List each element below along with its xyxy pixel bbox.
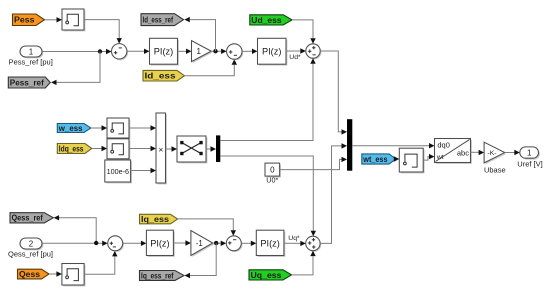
- svg-text:1: 1: [527, 149, 532, 158]
- svg-text:Ud*: Ud*: [289, 54, 301, 61]
- svg-text:-K-: -K-: [487, 150, 496, 157]
- sum S1: [112, 44, 129, 61]
- wire RT1 to sum S1 top: [84, 20, 122, 44]
- crossover block: [177, 136, 207, 163]
- wire S3 to mux input 1: [320, 51, 347, 135]
- svg-text:Qess: Qess: [19, 270, 41, 279]
- svg-text:Qess_ref [pu]: Qess_ref [pu]: [8, 250, 53, 259]
- svg-text:Id_ess_ref: Id_ess_ref: [143, 16, 174, 25]
- wire demux out2 to sum S5 top: [220, 156, 316, 236]
- svg-text:dq0: dq0: [437, 141, 450, 150]
- PI controller PI3: [146, 230, 174, 257]
- wire wt_ess to RT4: [394, 156, 400, 161]
- wire Pess to RT1: [45, 17, 63, 22]
- svg-text:Pess_ref [pu]: Pess_ref [pu]: [9, 58, 53, 67]
- input port 1 Pess_ref [pu]: [9, 46, 53, 67]
- svg-text:Uq*: Uq*: [288, 235, 300, 242]
- wire PI4 to sum S6: [284, 241, 306, 246]
- wire Qess to RT5: [49, 271, 62, 276]
- svg-text:U0*: U0*: [266, 176, 278, 185]
- demux bar: [216, 135, 220, 162]
- wire 100e-6 to product: [131, 168, 156, 173]
- constant 100e-6: [105, 160, 132, 183]
- wire branch to Pess_ref tag: [51, 52, 100, 86]
- rate transition RT5: [62, 264, 86, 287]
- svg-text:Iq_ess: Iq_ess: [141, 215, 170, 224]
- wire PI2 to sum S3: [286, 48, 306, 53]
- svg-text:wt_ess: wt_ess: [362, 155, 388, 164]
- svg-text:Qess_ref: Qess_ref: [12, 214, 44, 223]
- wire RT4 to dq0 wt input: [423, 154, 434, 160]
- label Ud*: [289, 54, 301, 61]
- svg-text:Ud_ess: Ud_ess: [251, 16, 282, 25]
- svg-text:Ubase: Ubase: [484, 166, 506, 175]
- sum S6: [306, 236, 322, 252]
- wire RT3 to product: [129, 146, 156, 151]
- rate transition RT2: [107, 118, 130, 139]
- from tag Ud_ess: [250, 15, 292, 25]
- svg-text:PI(z): PI(z): [262, 47, 281, 57]
- wire S6 to mux input 2: [320, 143, 347, 243]
- wire Idq_ess to RT3: [92, 146, 107, 151]
- svg-text:Uref [V]: Uref [V]: [517, 160, 542, 169]
- wire G2 to sum S5q: [213, 241, 227, 246]
- svg-text:2: 2: [29, 240, 34, 249]
- svg-text:Pess: Pess: [14, 16, 35, 25]
- svg-text:Idq_ess: Idq_ess: [59, 144, 84, 153]
- wire Uq_ess to sum S6 bottom: [292, 251, 316, 275]
- from tag Id_ess: [143, 70, 184, 81]
- node junction after G1: [213, 49, 217, 53]
- constant U0*: [265, 163, 281, 185]
- wire product to crossover: [166, 146, 178, 151]
- wire RT5 to sum S4 bottom: [84, 251, 117, 274]
- svg-text:100e-6: 100e-6: [107, 167, 129, 176]
- sum S5q: [226, 236, 242, 252]
- svg-text:Uq_ess: Uq_ess: [251, 271, 283, 280]
- goto tag Qess_ref: [10, 213, 53, 223]
- svg-text:wt: wt: [436, 154, 444, 161]
- rate transition RT3: [107, 139, 130, 160]
- from tag Uq_ess: [249, 270, 292, 280]
- goto tag Iq_ess_ref: [140, 271, 185, 281]
- node junction on Qess_ref wire: [94, 241, 98, 245]
- svg-text:PI(z): PI(z): [260, 239, 279, 249]
- sum S3: [306, 44, 322, 60]
- svg-text:Iq_ess_ref: Iq_ess_ref: [141, 271, 174, 280]
- wire port2 to sum S4: [42, 241, 108, 246]
- PI controller PI2: [258, 38, 288, 65]
- wire dq0 to gain Ubase: [471, 150, 485, 155]
- wire Id_ess to sum S2 bottom: [184, 59, 237, 76]
- sum S2: [227, 44, 244, 61]
- svg-text:PI(z): PI(z): [150, 239, 169, 249]
- from tag Iq_ess: [140, 214, 178, 224]
- PI controller PI4: [256, 230, 285, 257]
- mux bar: [347, 119, 352, 171]
- wire demux out1 to sum S3 bottom: [220, 58, 315, 140]
- svg-text:1: 1: [29, 48, 34, 57]
- wire S1 to PI1: [127, 49, 150, 54]
- gain G1 value 1: [192, 41, 213, 63]
- from tag Idq_ess: [57, 144, 92, 154]
- wire port1 to sum S1: [42, 49, 112, 54]
- wire gain to output port: [505, 150, 520, 155]
- wire Ud_ess to sum S3 top: [292, 20, 316, 44]
- from tag w_ess: [57, 124, 91, 133]
- svg-text:Pess_ref: Pess_ref: [10, 78, 44, 87]
- wire branch to Id_ess_ref tag: [184, 17, 215, 51]
- goto tag Pess_ref: [8, 77, 50, 88]
- wire PI1 to gain G1: [178, 49, 192, 54]
- goto tag Id_ess_ref: [141, 14, 184, 26]
- rate transition RT4: [399, 148, 424, 173]
- wire crossover to demux: [206, 146, 216, 151]
- wire S2 to PI2: [242, 49, 258, 54]
- rate transition RT1: [62, 9, 85, 31]
- sum S4: [108, 236, 124, 252]
- wire S5q to PI4: [241, 241, 256, 246]
- svg-text:-1: -1: [196, 239, 204, 248]
- svg-text:1: 1: [196, 47, 201, 56]
- output port 1 Uref [V]: [517, 147, 542, 169]
- from tag Qess: [18, 269, 50, 279]
- from tag Pess: [13, 14, 45, 26]
- wire w_ess to RT2: [91, 125, 107, 130]
- wire PI3 to gain G2: [173, 240, 191, 245]
- PI controller PI1: [150, 38, 179, 65]
- wire S4 to PI3: [123, 241, 147, 246]
- gain Ubase -K-: [484, 142, 506, 174]
- svg-text:abc: abc: [457, 149, 469, 158]
- svg-text:Id_ess: Id_ess: [145, 72, 177, 81]
- product block X: [156, 113, 167, 184]
- wire RT2 to product: [129, 125, 156, 130]
- wire Iq_ess to sum S5q top: [178, 219, 236, 236]
- label Uq*: [288, 235, 300, 242]
- wire branch to Qess_ref tag: [54, 215, 97, 243]
- svg-text:0: 0: [270, 166, 275, 175]
- wire branch to Iq_ess_ref tag: [185, 243, 217, 278]
- svg-text:×: ×: [158, 144, 163, 154]
- input port 2 Qess_ref [pu]: [8, 238, 53, 259]
- wire G1 to sum S2: [211, 49, 226, 54]
- node junction on Pess_ref wire: [98, 49, 102, 53]
- node junction after G2: [214, 241, 218, 245]
- svg-text:w_ess: w_ess: [58, 124, 83, 133]
- from tag wt_ess: [362, 154, 396, 164]
- svg-text:PI(z): PI(z): [154, 47, 173, 57]
- gain G2 value -1: [191, 231, 214, 257]
- transform block dq0 to abc: [435, 139, 472, 164]
- wire mux to dq0 block: [352, 143, 434, 148]
- wire U0* to mux input 3: [280, 157, 347, 170]
